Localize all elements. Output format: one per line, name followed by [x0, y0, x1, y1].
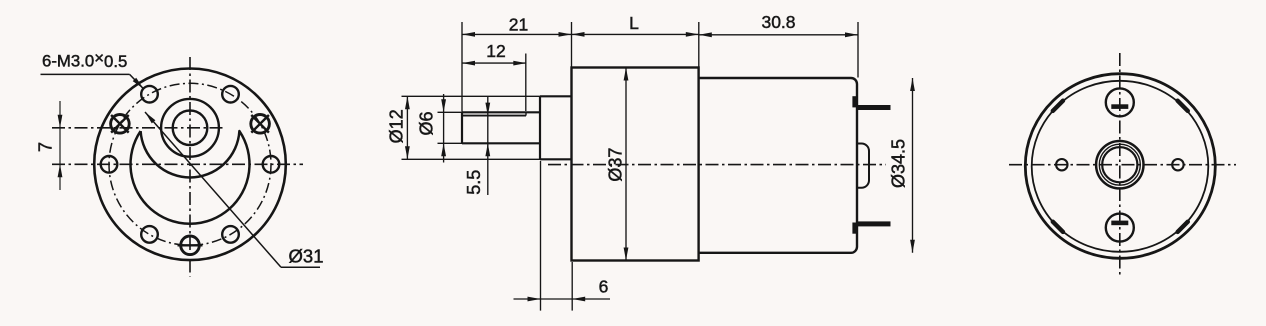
- svg-text:6: 6: [599, 276, 609, 296]
- svg-text:Ø31: Ø31: [289, 246, 324, 267]
- svg-text:7: 7: [36, 142, 56, 152]
- svg-text:6-M3.0×0.5: 6-M3.0×0.5: [42, 48, 127, 71]
- svg-text:L: L: [629, 13, 639, 33]
- svg-text:Ø37: Ø37: [606, 148, 626, 182]
- svg-text:12: 12: [486, 41, 505, 61]
- svg-text:Ø12: Ø12: [386, 109, 406, 143]
- svg-text:5.5: 5.5: [464, 170, 484, 195]
- svg-text:Ø6: Ø6: [417, 111, 437, 135]
- svg-text:21: 21: [509, 14, 528, 34]
- svg-text:Ø34.5: Ø34.5: [889, 139, 909, 188]
- svg-text:30.8: 30.8: [761, 12, 795, 32]
